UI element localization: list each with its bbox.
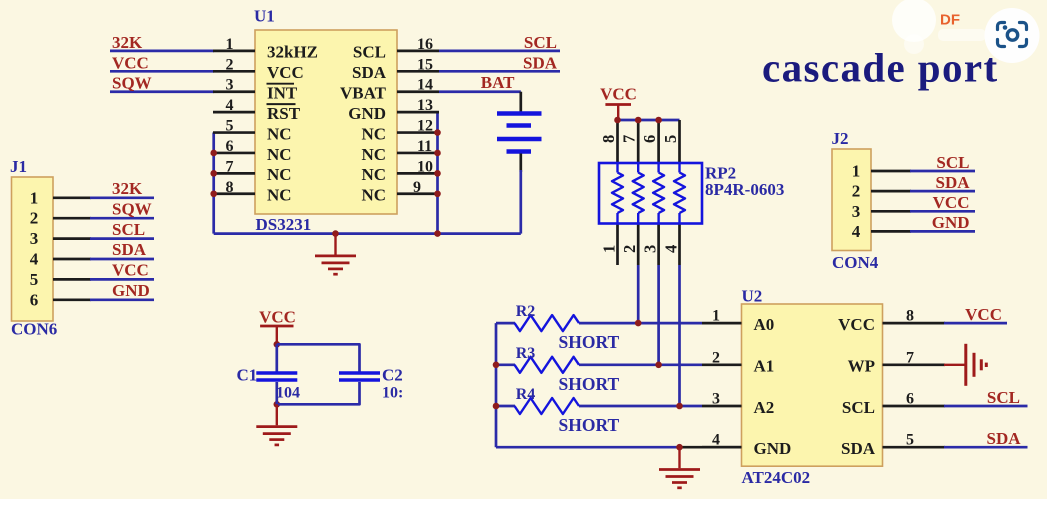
- svg-text:C2: C2: [382, 366, 403, 385]
- svg-text:SDA: SDA: [935, 173, 970, 192]
- svg-text:NC: NC: [267, 124, 292, 143]
- svg-text:SHORT: SHORT: [559, 374, 620, 394]
- svg-text:VCC: VCC: [112, 261, 149, 280]
- svg-text:SDA: SDA: [112, 240, 147, 259]
- svg-text:NC: NC: [361, 145, 386, 164]
- svg-text:VCC: VCC: [838, 315, 875, 334]
- svg-text:7: 7: [226, 158, 234, 175]
- svg-text:4: 4: [30, 250, 39, 269]
- svg-text:104: 104: [276, 385, 300, 402]
- svg-text:5: 5: [226, 118, 234, 135]
- svg-text:5: 5: [30, 270, 39, 289]
- svg-text:2: 2: [712, 349, 720, 366]
- svg-text:32kHZ: 32kHZ: [267, 43, 318, 62]
- svg-text:3: 3: [712, 391, 720, 408]
- svg-text:GND: GND: [112, 281, 150, 300]
- svg-text:SCL: SCL: [842, 398, 875, 417]
- svg-text:4: 4: [226, 97, 234, 114]
- svg-text:6: 6: [30, 290, 39, 309]
- svg-text:VCC: VCC: [933, 193, 970, 212]
- svg-text:SHORT: SHORT: [559, 415, 620, 435]
- svg-text:13: 13: [417, 97, 433, 114]
- svg-text:INT: INT: [267, 84, 298, 103]
- svg-text:A1: A1: [754, 357, 775, 376]
- svg-text:3: 3: [641, 245, 660, 253]
- svg-text:5: 5: [906, 432, 914, 449]
- svg-text:6: 6: [640, 135, 659, 143]
- svg-text:8: 8: [906, 308, 914, 325]
- svg-text:R2: R2: [516, 303, 536, 320]
- svg-text:SQW: SQW: [112, 74, 152, 93]
- svg-text:SDA: SDA: [986, 429, 1021, 448]
- svg-text:SCL: SCL: [987, 388, 1020, 407]
- svg-text:RST: RST: [267, 104, 301, 123]
- svg-text:1: 1: [852, 162, 861, 181]
- svg-text:4: 4: [662, 245, 681, 253]
- svg-text:VCC: VCC: [112, 53, 149, 72]
- svg-text:AT24C02: AT24C02: [742, 468, 811, 487]
- svg-text:J1: J1: [10, 157, 27, 176]
- svg-text:DF: DF: [940, 12, 960, 29]
- svg-text:C1: C1: [237, 366, 258, 385]
- svg-text:10: 10: [417, 158, 433, 175]
- svg-text:8P4R-0603: 8P4R-0603: [705, 180, 784, 199]
- svg-text:3: 3: [30, 229, 39, 248]
- svg-text:SDA: SDA: [523, 53, 558, 72]
- svg-text:14: 14: [417, 77, 433, 94]
- svg-text:GND: GND: [348, 104, 386, 123]
- svg-text:NC: NC: [267, 165, 292, 184]
- svg-text:VCC: VCC: [259, 308, 296, 327]
- svg-text:3: 3: [226, 77, 234, 94]
- svg-text:SHORT: SHORT: [559, 332, 620, 352]
- svg-text:R4: R4: [516, 386, 536, 403]
- svg-text:4: 4: [852, 222, 861, 241]
- svg-text:GND: GND: [932, 213, 970, 232]
- svg-text:NC: NC: [361, 186, 386, 205]
- svg-text:32K: 32K: [112, 179, 143, 198]
- svg-text:GND: GND: [754, 439, 792, 458]
- svg-text:cascade port: cascade port: [762, 45, 999, 91]
- svg-text:A0: A0: [754, 315, 775, 334]
- svg-text:VCC: VCC: [267, 63, 304, 82]
- svg-text:U1: U1: [254, 7, 275, 26]
- svg-text:32K: 32K: [112, 33, 143, 52]
- svg-text:2: 2: [226, 56, 234, 73]
- svg-text:CON6: CON6: [11, 320, 57, 339]
- svg-text:SCL: SCL: [936, 153, 969, 172]
- svg-text:6: 6: [226, 138, 234, 155]
- svg-text:U2: U2: [742, 287, 763, 306]
- svg-text:1: 1: [30, 188, 39, 207]
- svg-text:A2: A2: [754, 398, 775, 417]
- svg-text:CON4: CON4: [832, 253, 879, 272]
- svg-text:NC: NC: [267, 145, 292, 164]
- svg-text:12: 12: [417, 118, 433, 135]
- svg-text:8: 8: [599, 135, 618, 143]
- svg-text:16: 16: [417, 36, 433, 53]
- svg-text:2: 2: [852, 182, 861, 201]
- svg-text:SCL: SCL: [353, 43, 386, 62]
- svg-text:1: 1: [712, 308, 720, 325]
- svg-text:BAT: BAT: [481, 73, 515, 92]
- svg-text:NC: NC: [361, 165, 386, 184]
- svg-text:SCL: SCL: [524, 33, 557, 52]
- svg-text:2: 2: [620, 245, 639, 253]
- svg-text:WP: WP: [848, 357, 875, 376]
- svg-text:2: 2: [30, 209, 39, 228]
- svg-text:R3: R3: [516, 345, 536, 362]
- svg-text:SDA: SDA: [841, 439, 876, 458]
- svg-text:SCL: SCL: [112, 220, 145, 239]
- svg-text:J2: J2: [832, 129, 849, 148]
- svg-text:9: 9: [413, 179, 421, 196]
- svg-text:7: 7: [620, 135, 639, 143]
- svg-text:VBAT: VBAT: [340, 84, 387, 103]
- svg-text:7: 7: [906, 349, 914, 366]
- svg-text:15: 15: [417, 56, 433, 73]
- svg-text:1: 1: [600, 245, 619, 253]
- svg-text:6: 6: [906, 391, 914, 408]
- svg-text:NC: NC: [361, 124, 386, 143]
- svg-text:DS3231: DS3231: [256, 215, 312, 234]
- svg-text:8: 8: [226, 179, 234, 196]
- svg-text:VCC: VCC: [600, 85, 637, 104]
- svg-text:11: 11: [417, 138, 432, 155]
- svg-text:NC: NC: [267, 186, 292, 205]
- svg-text:SDA: SDA: [352, 63, 387, 82]
- svg-text:VCC: VCC: [965, 305, 1002, 324]
- svg-text:3: 3: [852, 202, 861, 221]
- svg-text:10:: 10:: [382, 385, 403, 402]
- svg-text:5: 5: [661, 135, 680, 143]
- svg-text:1: 1: [226, 36, 234, 53]
- svg-text:SQW: SQW: [112, 199, 152, 218]
